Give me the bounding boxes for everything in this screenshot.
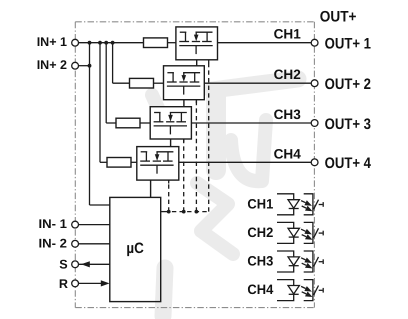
svg-text:OUT+: OUT+	[320, 9, 357, 26]
svg-text:OUT+ 3: OUT+ 3	[325, 116, 371, 133]
svg-text:CH1: CH1	[247, 196, 273, 211]
svg-text:OUT+ 1: OUT+ 1	[325, 36, 372, 53]
svg-text:CH4: CH4	[247, 282, 273, 297]
svg-text:IN+ 2: IN+ 2	[37, 58, 67, 72]
svg-text:CH1: CH1	[274, 27, 302, 42]
svg-text:IN+ 1: IN+ 1	[37, 35, 67, 49]
svg-text:CH2: CH2	[274, 67, 302, 82]
svg-text:S: S	[59, 257, 67, 271]
svg-text:CH2: CH2	[247, 225, 273, 240]
svg-text:IN- 2: IN- 2	[39, 236, 68, 250]
svg-text:R: R	[59, 277, 68, 291]
svg-text:µC: µC	[126, 240, 144, 257]
svg-text:CH3: CH3	[274, 107, 302, 122]
svg-text:IN- 1: IN- 1	[39, 217, 68, 231]
svg-text:CH4: CH4	[274, 146, 302, 161]
svg-text:OUT+ 4: OUT+ 4	[325, 155, 372, 172]
svg-text:CH3: CH3	[247, 254, 273, 269]
svg-text:OUT+ 2: OUT+ 2	[325, 76, 371, 93]
